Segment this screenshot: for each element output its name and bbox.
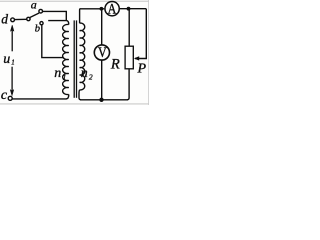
svg-text:A: A [108,1,117,17]
svg-text:n: n [54,66,61,81]
u1 arrow shaft lower [11,67,13,91]
svg-text:2: 2 [89,72,93,81]
node d [11,18,15,22]
svg-text:u: u [3,52,10,67]
core line left [73,20,75,97]
wire d to switch pivot [15,18,27,20]
wire rail dot to R top [128,9,130,46]
svg-text:b: b [35,24,40,35]
ammeter A [105,2,119,16]
top rail right segment [120,8,147,10]
svg-text:1: 1 [11,58,15,66]
terminal b [40,22,43,25]
svg-text:V: V [98,45,107,61]
svg-text:n: n [81,66,88,81]
secondary bottom lead [79,90,81,100]
svg-text:d: d [1,11,8,26]
svg-text:R: R [110,56,120,72]
junction dot (V tap, top) [100,7,104,11]
terminal a [39,9,43,13]
wire R bottom to rail [127,69,129,100]
svg-text:c: c [1,88,8,103]
wiper arrow of P [134,56,139,60]
secondary bottom rail [80,99,128,101]
switch blade toward a [30,13,39,18]
svg-text:P: P [137,61,147,76]
junction dot (V tap, bottom) [99,98,103,102]
voltmeter top wire [101,9,103,45]
junction dot (R top) [127,7,131,11]
svg-text:1: 1 [63,74,67,82]
primary winding n1 [63,24,69,94]
secondary winding n2 [80,23,85,90]
wire from b down to winding tap [42,25,63,58]
right drop wire to wiper [135,9,146,59]
wire from a to top of primary [43,11,67,20]
node c [8,96,12,100]
switch pivot [27,17,30,20]
bottom rail from c to primary [12,98,66,100]
border frame (decorative scan border) [0,0,149,2]
resistor R body [125,46,133,69]
wire stub into winding top [48,21,69,25]
core line right [76,20,78,97]
secondary top lead [79,9,82,23]
voltage arrow u1 (down head) [10,90,14,96]
primary bottom lead [66,95,69,99]
voltmeter V [94,45,109,60]
voltage arrow u1 (up head) [10,25,14,31]
u1 arrow shaft upper [11,30,13,52]
top rail left segment [80,8,104,10]
svg-text:a: a [31,0,37,12]
voltmeter bottom wire [101,60,103,100]
